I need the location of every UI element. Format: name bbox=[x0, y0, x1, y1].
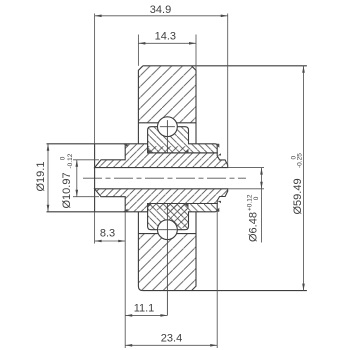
svg-text:Ø6.48: Ø6.48 bbox=[247, 212, 259, 242]
left step corner mark upper bbox=[123, 144, 128, 147]
svg-text:8.3: 8.3 bbox=[100, 228, 115, 240]
bottom block right half cross hatch bbox=[167, 204, 188, 228]
bearing inner ring bottom block and lip bbox=[148, 204, 218, 230]
svg-text:11.1: 11.1 bbox=[134, 303, 155, 315]
dimension 11.1 bbox=[125, 314, 167, 316]
hub upper section hatch bbox=[95, 144, 228, 168]
step arrow mark right upper bbox=[218, 153, 222, 155]
crossed hatch strip bottom block top bbox=[148, 204, 189, 211]
bottom ball cross and bearing centerline extension bbox=[158, 204, 176, 316]
top bearing ball bbox=[158, 117, 178, 137]
step arrow mark right lower bbox=[218, 201, 222, 203]
svg-text:-0.12: -0.12 bbox=[67, 153, 74, 168]
dimension 34.9 bbox=[95, 14, 228, 166]
dimension dia 19.1 bbox=[47, 144, 49, 212]
wheel rim top outline bbox=[138, 66, 196, 144]
block corner fill marks bottom bbox=[148, 204, 189, 208]
dimension 14.3 bbox=[138, 35, 196, 71]
svg-text:14.3: 14.3 bbox=[155, 31, 176, 43]
bearing inner ring top block and lip bbox=[148, 127, 218, 153]
wheel rim bottom block hatch bbox=[138, 234, 196, 291]
wheel rim top block hatch bbox=[138, 66, 196, 123]
dimension dia 10.97 bbox=[73, 160, 99, 197]
svg-text:0: 0 bbox=[60, 156, 67, 160]
svg-text:0: 0 bbox=[253, 196, 260, 200]
dimension 8.3 bbox=[95, 212, 126, 348]
top ball cross bbox=[160, 120, 175, 153]
lip corner mark upper bbox=[215, 144, 219, 148]
crossed hatch strip top block bottom bbox=[148, 146, 189, 153]
hub lower section hatch bbox=[95, 189, 228, 212]
hub boss outline left bbox=[47, 144, 126, 212]
bottom bearing ball bbox=[158, 220, 178, 240]
left step corner mark lower bbox=[123, 209, 128, 212]
dimension dia 6.48 bbox=[228, 168, 264, 243]
svg-text:Ø10.97: Ø10.97 bbox=[61, 172, 73, 208]
lip corner mark lower bbox=[215, 208, 219, 212]
dimension dia 59.49 bbox=[303, 66, 305, 291]
dimension 23.4 bbox=[125, 212, 217, 348]
center axis line bbox=[83, 177, 246, 179]
svg-text:34.9: 34.9 bbox=[150, 4, 171, 16]
svg-text:Ø19.1: Ø19.1 bbox=[35, 162, 47, 192]
block corner fill marks top bbox=[148, 149, 189, 153]
svg-text:Ø59.49: Ø59.49 bbox=[292, 178, 304, 214]
wheel rim bottom outline bbox=[138, 212, 196, 291]
svg-text:-0.25: -0.25 bbox=[297, 153, 304, 168]
svg-text:23.4: 23.4 bbox=[161, 332, 182, 344]
wheel rim top edge / dia 59.49 top extension bbox=[143, 65, 307, 67]
wheel rim bottom edge / dia 59.49 bottom extension bbox=[143, 290, 307, 292]
